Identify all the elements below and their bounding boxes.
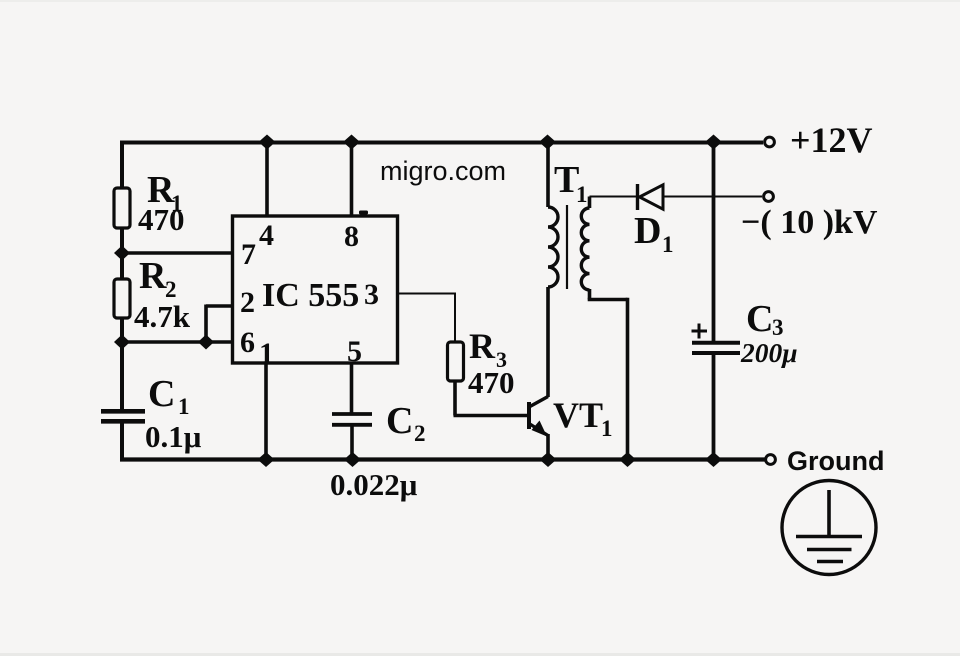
svg-text:4: 4 <box>259 219 274 252</box>
svg-text:C: C <box>386 400 413 442</box>
svg-text:C: C <box>746 298 773 340</box>
svg-text:200μ: 200μ <box>740 337 798 368</box>
svg-text:0.1μ: 0.1μ <box>145 419 202 454</box>
svg-text:1: 1 <box>662 232 674 257</box>
svg-text:4.7k: 4.7k <box>134 299 191 334</box>
svg-text:migro.com: migro.com <box>380 156 506 186</box>
svg-text:5: 5 <box>347 335 362 368</box>
svg-text:IC 555: IC 555 <box>262 277 359 314</box>
svg-text:8: 8 <box>344 220 359 253</box>
svg-text:1: 1 <box>576 182 588 207</box>
svg-text:D: D <box>634 210 661 252</box>
svg-text:1: 1 <box>259 337 274 370</box>
svg-text:470: 470 <box>468 365 515 400</box>
svg-text:VT: VT <box>553 395 603 435</box>
svg-text:Ground: Ground <box>787 446 884 476</box>
svg-text:R: R <box>139 255 167 297</box>
svg-text:1: 1 <box>178 394 190 419</box>
svg-text:C: C <box>148 373 175 415</box>
svg-text:+12V: +12V <box>790 120 873 160</box>
svg-text:2: 2 <box>240 286 255 319</box>
svg-text:R: R <box>469 326 496 366</box>
svg-text:2: 2 <box>414 421 426 446</box>
svg-text:0.022μ: 0.022μ <box>330 467 418 502</box>
svg-text:−( 10 )kV: −( 10 )kV <box>741 204 878 241</box>
svg-text:3: 3 <box>364 278 379 311</box>
svg-text:7: 7 <box>241 238 256 271</box>
svg-text:470: 470 <box>138 202 185 237</box>
svg-text:1: 1 <box>601 416 613 441</box>
svg-text:6: 6 <box>240 326 255 359</box>
